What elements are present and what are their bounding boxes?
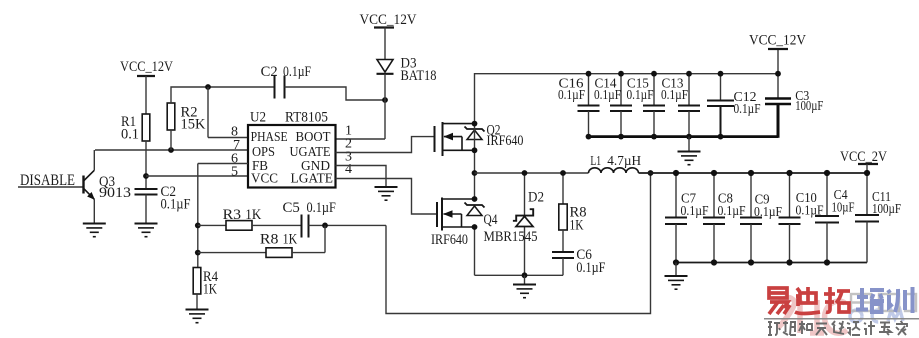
svg-text:1K: 1K xyxy=(570,218,584,234)
wire Q3 emitter xyxy=(93,199,95,223)
capacitor C8 xyxy=(703,173,746,263)
wire OPS line xyxy=(95,149,248,151)
power VCC_12V (left) xyxy=(120,59,173,76)
wire VCC to D3 xyxy=(384,28,386,60)
wire C2 to ground xyxy=(145,195,147,224)
svg-text:C2: C2 xyxy=(261,64,278,80)
ground (output bank) xyxy=(665,263,688,290)
svg-text:C5: C5 xyxy=(283,200,300,216)
wire C2 to D3 node xyxy=(285,87,386,100)
capacitor C10 xyxy=(779,173,824,263)
node L1 out / FB tap xyxy=(648,170,654,176)
capacitor C12 xyxy=(707,74,761,137)
watermark char Xun (blue) xyxy=(887,287,913,313)
wire C5 right xyxy=(309,224,387,226)
resistor R8 1K (second) xyxy=(559,173,587,252)
capacitor C9 xyxy=(740,173,782,263)
watermark char Pei (blue) xyxy=(856,288,884,312)
wire UGATE run xyxy=(336,137,435,153)
capacitor C11 xyxy=(855,173,901,263)
svg-text:0.1µF: 0.1µF xyxy=(558,88,585,103)
wire Q2 drain riser + top rail left xyxy=(475,74,589,124)
svg-text:15K: 15K xyxy=(181,117,207,133)
svg-text:U2: U2 xyxy=(250,110,266,126)
ground (input bank) xyxy=(678,137,701,165)
resistor R1 xyxy=(121,114,150,143)
capacitor C6 xyxy=(552,247,605,276)
wire Q2-Q4 rail xyxy=(474,124,476,199)
svg-text:L1: L1 xyxy=(590,153,601,168)
node R8 top xyxy=(560,170,566,176)
watermark logo 21IC overlay (light pink strokes) xyxy=(778,298,847,334)
node input rail junctions xyxy=(586,71,781,140)
svg-text:100µF: 100µF xyxy=(872,202,901,217)
node Q2 source xyxy=(472,147,478,153)
node Q2 drain xyxy=(472,121,478,127)
ground (IC pin3) xyxy=(375,187,398,200)
svg-text:0.1µF: 0.1µF xyxy=(734,102,761,117)
wire input bottom rail (thick) xyxy=(587,135,778,138)
svg-text:R8: R8 xyxy=(260,231,279,247)
ground (Q3) xyxy=(83,224,106,237)
wire Q3 collector xyxy=(93,150,95,170)
node output rail junctions xyxy=(673,170,870,266)
resistor R4 1K xyxy=(193,268,218,310)
wire D3 to BOOT corner xyxy=(384,74,386,139)
svg-text:PHASE: PHASE xyxy=(251,130,288,145)
wire bottom gnd line xyxy=(475,274,564,276)
resistor R2 xyxy=(167,103,206,133)
svg-text:4.7µH: 4.7µH xyxy=(607,153,641,168)
wire feedback run xyxy=(386,173,651,314)
ground (R4) xyxy=(186,310,209,323)
svg-text:10µF: 10µF xyxy=(832,201,855,216)
svg-text:4: 4 xyxy=(345,162,352,177)
capacitor C15 xyxy=(627,74,666,137)
watermark slogan row (gray) xyxy=(768,321,907,335)
wire PHASE drop xyxy=(207,87,209,138)
svg-text:1K: 1K xyxy=(245,207,261,223)
svg-text:R3: R3 xyxy=(223,207,242,223)
transistor Q3 9013 xyxy=(84,170,132,201)
capacitor C3 xyxy=(765,49,823,138)
wire VCC to R1 xyxy=(145,76,147,114)
svg-text:0.1µF: 0.1µF xyxy=(161,197,191,213)
wire R2 bottom lead xyxy=(170,130,172,150)
wire switch node to L1 xyxy=(475,172,589,174)
svg-text:MBR1545: MBR1545 xyxy=(484,229,538,245)
transistor Q2 IRF640 xyxy=(435,122,524,156)
watermark gray grid overlay behind blue chars xyxy=(851,294,916,311)
svg-text:LGATE: LGATE xyxy=(291,172,334,187)
svg-text:0.1µF: 0.1µF xyxy=(661,88,688,103)
svg-text:VCC: VCC xyxy=(251,172,278,187)
svg-text:0.1µF: 0.1µF xyxy=(307,200,336,216)
capacitor C13 xyxy=(661,74,700,137)
power VCC_12V (right) xyxy=(749,33,806,50)
resistor R8 1K xyxy=(198,225,325,257)
wire output bottom rail xyxy=(676,262,867,264)
svg-text:OPS: OPS xyxy=(252,145,275,160)
wire Q4 source down xyxy=(474,227,476,275)
svg-text:5: 5 xyxy=(231,165,238,180)
node R2 bottom on OPS xyxy=(168,147,174,153)
wire to VCC pin5 xyxy=(146,175,248,177)
svg-text:BOOT: BOOT xyxy=(296,130,331,145)
node D2 top xyxy=(522,170,528,176)
watermark char Tuo (red) xyxy=(824,287,850,312)
wire input top rail xyxy=(589,73,779,75)
power VCC_2V xyxy=(840,149,887,173)
inductor L1 4.7uH xyxy=(589,153,642,173)
watermark com overlay (light blue) xyxy=(850,310,903,322)
svg-text:BAT18: BAT18 xyxy=(401,68,437,84)
svg-text:VCC_12V: VCC_12V xyxy=(120,59,173,75)
diode D3 BAT18 xyxy=(377,56,437,85)
svg-text:IRF640: IRF640 xyxy=(487,133,524,149)
svg-text:VCC_2V: VCC_2V xyxy=(840,149,887,165)
capacitor C16 xyxy=(558,74,600,137)
node VCC pin tap xyxy=(143,173,149,179)
power VCC_12V (top middle) xyxy=(360,12,417,28)
node R8 tap xyxy=(195,250,201,256)
node D3 junction xyxy=(382,97,388,103)
wire pin8 PHASE xyxy=(208,137,248,139)
node Q4 source xyxy=(472,224,478,230)
capacitor C7 xyxy=(665,173,709,263)
node Q4 drain xyxy=(472,196,478,202)
svg-text:0.1: 0.1 xyxy=(121,127,139,143)
diode D2 MBR1545 xyxy=(484,173,545,275)
node D2 bottom xyxy=(522,272,528,278)
diode Q2 body xyxy=(465,127,485,140)
wire R1 bottom to C2 top xyxy=(145,141,147,189)
wire FB column xyxy=(197,164,199,268)
svg-text:100µF: 100µF xyxy=(795,99,823,114)
transistor Q4 IRF640 xyxy=(431,198,498,249)
wire LGATE run xyxy=(336,179,438,215)
node switch tap xyxy=(472,170,478,176)
wire pin1 BOOT xyxy=(336,138,386,140)
capacitor C14 xyxy=(594,74,632,137)
svg-text:1K: 1K xyxy=(283,231,298,247)
ground (C2 bypass) xyxy=(135,224,158,237)
svg-text:IRF640: IRF640 xyxy=(431,232,468,248)
svg-text:0.1µF: 0.1µF xyxy=(627,88,654,103)
svg-text:0.1µF: 0.1µF xyxy=(283,64,311,80)
diode Q4 body xyxy=(465,203,485,216)
capacitor C2 (bypass at Q3) xyxy=(135,184,191,213)
svg-text:D2: D2 xyxy=(528,190,544,206)
svg-text:1K: 1K xyxy=(203,282,217,298)
ground (D2) xyxy=(513,275,536,297)
wire FB pin6 xyxy=(198,163,248,165)
svg-text:UGATE: UGATE xyxy=(290,145,331,160)
svg-text:9013: 9013 xyxy=(99,185,131,201)
watermark divider line xyxy=(764,318,919,320)
node R3 tap xyxy=(195,223,201,229)
watermark char Di (red) xyxy=(795,287,820,314)
wire output top rail xyxy=(639,172,868,174)
capacitor C5 xyxy=(283,200,336,238)
svg-text:0.1µF: 0.1µF xyxy=(754,205,782,220)
capacitor C4 xyxy=(815,173,855,263)
capacitor C2 (bootstrap) xyxy=(261,64,311,99)
svg-text:VCC_12V: VCC_12V xyxy=(749,33,806,49)
svg-text:VCC_12V: VCC_12V xyxy=(360,12,417,28)
svg-text:0.1µF: 0.1µF xyxy=(576,260,605,276)
svg-text:Q4: Q4 xyxy=(484,212,499,228)
node C5/R8 junction xyxy=(322,223,328,229)
node PHASE tap xyxy=(205,84,211,90)
wire GND pin3 run xyxy=(336,166,387,187)
svg-text:RT8105: RT8105 xyxy=(285,110,328,126)
wire DISABLE to base xyxy=(18,186,84,188)
svg-text:0.1µF: 0.1µF xyxy=(594,88,621,103)
resistor R3 1K xyxy=(198,207,302,230)
wire R2 top to bootstrap rail xyxy=(171,87,275,103)
IC U2 RT8105 xyxy=(248,110,336,188)
watermark char Yi (red) xyxy=(769,288,790,314)
